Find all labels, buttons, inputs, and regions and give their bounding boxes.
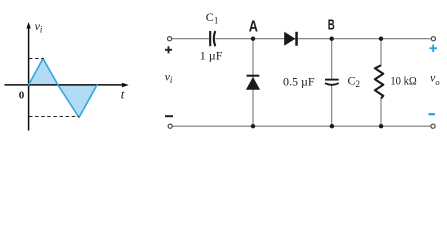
svg-text:1 µF: 1 µF [200, 49, 223, 63]
svg-text:A: A [249, 18, 259, 35]
junction dot bottom under C2 [330, 124, 334, 128]
wire bottom rail [172, 125, 430, 127]
svg-text:t: t [121, 87, 125, 102]
capacitor C2 top plate [325, 79, 339, 81]
input waveform vi outline [29, 59, 98, 118]
label - input [165, 115, 173, 117]
wire resistor R to bottom rail [380, 99, 382, 127]
wire top: C1 right plate to output + terminal [215, 38, 431, 40]
diode D1 (series, anode left) [284, 32, 298, 46]
terminal input - [168, 124, 172, 128]
wire resistor R to top rail [380, 39, 382, 66]
node A [251, 37, 255, 41]
junction dot bottom under node A branch [251, 124, 255, 128]
svg-text:0.5 µF: 0.5 µF [283, 74, 315, 88]
capacitor C1 left plate [209, 31, 211, 46]
terminal output + [431, 37, 435, 41]
wire node A down to diode D2 [252, 39, 254, 127]
graph dashed positive peak level [29, 58, 44, 60]
terminal input + [168, 37, 172, 41]
wire top: input + terminal to C1 left plate [172, 38, 210, 40]
label - output (blue) [429, 113, 436, 115]
terminal output - [431, 124, 435, 128]
wire capacitor C2 bottom plate down to bottom rail [331, 85, 333, 127]
svg-text:10 kΩ: 10 kΩ [390, 74, 416, 88]
wire node B down to capacitor C2 top plate [331, 39, 333, 79]
junction dot top of resistor [379, 37, 383, 41]
capacitor C2 bottom curved plate [325, 83, 339, 85]
label + output (blue) [430, 45, 437, 52]
diode D2 (shunt at node A, cathode up) [246, 75, 260, 90]
junction dot bottom under resistor [379, 124, 383, 128]
label + input [165, 46, 172, 53]
resistor R 10k zigzag [375, 65, 383, 98]
node B [330, 37, 334, 41]
svg-text:0: 0 [19, 90, 25, 102]
graph dashed negative peak level [29, 116, 79, 118]
input waveform vi fill [29, 59, 98, 118]
graph t axis [5, 83, 129, 88]
capacitor C1 right curved plate [214, 31, 216, 46]
svg-text:B: B [328, 18, 335, 34]
graph v axis [26, 22, 30, 131]
